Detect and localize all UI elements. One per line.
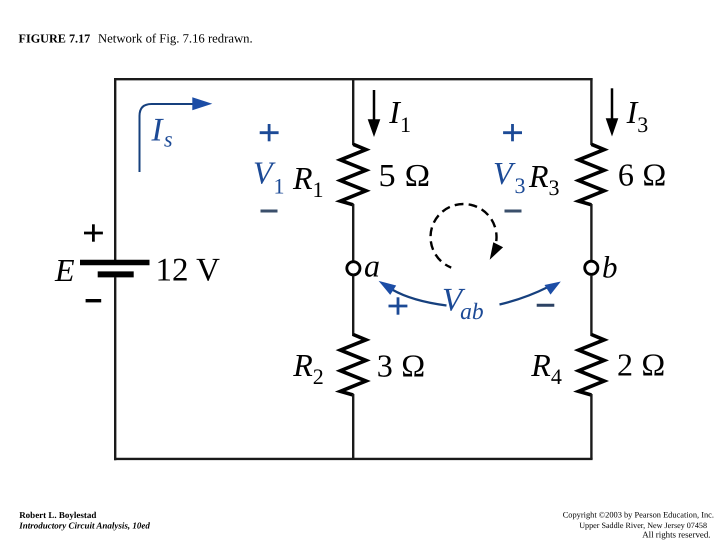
svg-text:V1: V1 (253, 155, 285, 199)
node a (347, 262, 360, 275)
svg-text:FIGURE 7.17: FIGURE 7.17 (19, 31, 91, 45)
battery + polarity (84, 224, 103, 241)
resistor R2 (340, 335, 366, 396)
svg-text:Copyright ©2003 by Pearson Edu: Copyright ©2003 by Pearson Education, In… (563, 511, 714, 520)
wire: bottom rail (114, 458, 592, 460)
label V3 − polarity (505, 210, 522, 213)
wire: left rail lower segment (114, 277, 116, 460)
svg-text:b: b (602, 250, 618, 285)
svg-text:R3: R3 (528, 158, 560, 200)
resistor R1 (340, 144, 366, 205)
svg-text:3 Ω: 3 Ω (377, 347, 426, 383)
wire: middle branch top (352, 79, 354, 145)
voltage arrow Vab left (toward node a) (379, 281, 447, 306)
resistor R3 (579, 144, 605, 205)
wire: right rail R3 to node b (590, 204, 592, 261)
label V1 − polarity (261, 210, 278, 213)
svg-text:R2: R2 (292, 347, 324, 389)
svg-text:5 Ω: 5 Ω (379, 157, 431, 193)
wire: right rail top segment (590, 78, 592, 145)
label V1 + polarity (260, 124, 279, 141)
battery E bottom plate (98, 271, 134, 277)
label V3 + polarity (503, 124, 522, 141)
label Vab − polarity (537, 304, 555, 307)
svg-text:R1: R1 (292, 160, 324, 202)
current arrow I1 (368, 90, 381, 137)
svg-text:6 Ω: 6 Ω (618, 156, 667, 192)
current arrow Is (140, 97, 213, 172)
svg-text:All rights reserved.: All rights reserved. (642, 530, 710, 540)
node b (585, 261, 598, 274)
wire: left rail upper segment (114, 78, 116, 260)
resistor R4 (579, 335, 605, 396)
svg-text:Vab: Vab (442, 283, 484, 325)
wire: middle branch node a to R2 (352, 276, 354, 337)
label Vab + polarity (389, 297, 408, 314)
svg-text:Network of Fig. 7.16 redrawn.: Network of Fig. 7.16 redrawn. (98, 31, 253, 45)
svg-text:Introductory Circuit Analysis,: Introductory Circuit Analysis, 10ed (18, 520, 150, 530)
wire: top rail (114, 78, 592, 80)
wire: middle branch R1 to node a (352, 204, 354, 262)
wire: middle branch R2 to bottom (352, 394, 354, 459)
svg-text:V3: V3 (493, 155, 526, 198)
svg-text:I3: I3 (626, 94, 649, 137)
battery − polarity (86, 299, 102, 302)
svg-text:R4: R4 (530, 347, 562, 389)
loop arrow (dashed clockwise) (431, 204, 504, 268)
credit left (18, 510, 150, 531)
svg-text:12 V: 12 V (156, 253, 221, 289)
svg-text:Is: Is (151, 112, 173, 151)
svg-text:Robert L. Boylestad: Robert L. Boylestad (19, 510, 96, 520)
svg-text:a: a (364, 248, 380, 284)
figure caption (19, 31, 253, 45)
credit right (563, 511, 714, 540)
svg-text:2 Ω: 2 Ω (617, 347, 666, 383)
svg-text:I1: I1 (388, 94, 411, 137)
battery E top plate (80, 260, 150, 266)
current arrow I3 (606, 88, 619, 136)
wire: right rail node b to R4 (590, 275, 592, 336)
voltage arrow Vab right (toward node b) (500, 282, 561, 305)
svg-text:E: E (54, 252, 75, 288)
wire: right rail R4 to bottom (590, 394, 592, 459)
